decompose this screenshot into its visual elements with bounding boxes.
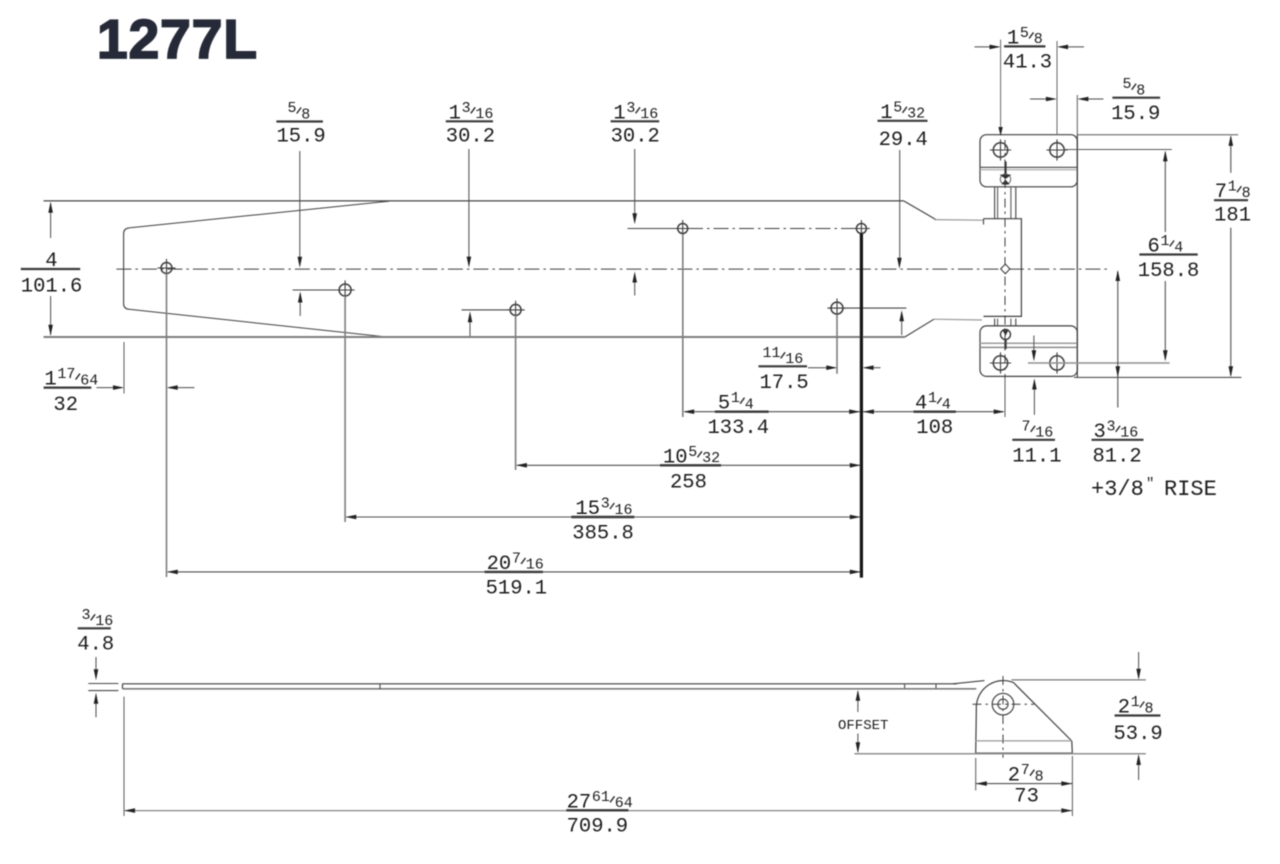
strap top edge / extension	[44, 200, 904, 202]
svg-text:1: 1	[928, 390, 937, 407]
svg-text:8: 8	[1242, 185, 1251, 202]
svg-text:5: 5	[1123, 76, 1132, 93]
svg-text:385.8: 385.8	[572, 523, 634, 546]
strap bottom taper edge	[129, 309, 385, 337]
bottom plate pin	[1001, 330, 1011, 350]
ext left end side	[123, 697, 125, 816]
bracket base top	[976, 740, 1072, 742]
dimension label 1 3/16 over 30.2	[446, 100, 495, 149]
svg-text:4: 4	[745, 397, 754, 414]
svg-text:1: 1	[613, 102, 625, 125]
dim 81.2mm vertical	[1117, 272, 1119, 408]
strap top taper edge	[129, 201, 389, 228]
svg-text:1: 1	[1161, 233, 1170, 250]
svg-text:6: 6	[1148, 236, 1160, 259]
ext line hole A down	[166, 274, 168, 578]
strap left end cap	[124, 228, 129, 309]
dim 15.9mm top right line	[1030, 98, 1055, 100]
ext line hole C down	[515, 316, 517, 471]
svg-text:3: 3	[462, 100, 471, 117]
svg-text:5: 5	[1020, 25, 1029, 42]
bracket right base edge	[1071, 741, 1074, 753]
ext base line	[854, 753, 1146, 755]
dim 181mm vertical	[1230, 137, 1232, 173]
svg-text:5: 5	[718, 393, 730, 416]
dimension label 2 1/8 over 53.9	[1114, 694, 1163, 746]
bracket hump and diagonal	[976, 681, 1071, 741]
hole F leader	[844, 307, 907, 309]
svg-text:5: 5	[688, 444, 697, 461]
dimension label 1 5/32 over 29.4	[878, 99, 928, 152]
side strap top bend	[953, 681, 985, 684]
dim 158.8mm vertical	[1164, 153, 1166, 233]
svg-text:16: 16	[526, 557, 544, 574]
svg-text:1277L: 1277L	[97, 8, 258, 70]
svg-text:8: 8	[1034, 31, 1043, 48]
pin axis centerline vertical	[1004, 140, 1006, 416]
svg-text:61: 61	[592, 789, 610, 806]
svg-text:4: 4	[1174, 239, 1183, 256]
bracket pin outer circle	[992, 693, 1014, 715]
bracket pin horizontal centerline	[973, 703, 1035, 705]
top plate screw hole right	[1050, 143, 1064, 157]
svg-text:17.5: 17.5	[760, 372, 809, 395]
svg-text:29.4: 29.4	[879, 129, 928, 152]
ext line plate bottom right	[1074, 376, 1241, 378]
dimension label 3 3/16 over 81.2	[1092, 418, 1144, 468]
ext bracket left side	[975, 758, 977, 791]
ext line screw col left up	[1000, 40, 1002, 129]
dim 73mm line	[976, 783, 1073, 785]
hole B leader	[293, 289, 340, 291]
dimension label 6 1/4 over 158.8	[1138, 233, 1200, 283]
ext line screw row right	[1064, 149, 1172, 151]
bracket pin inner circle	[998, 699, 1008, 709]
neck top edge	[934, 219, 984, 222]
svg-text:1: 1	[1228, 179, 1237, 196]
hinge knuckle lower	[995, 319, 1016, 326]
svg-text:16: 16	[475, 106, 493, 123]
ext line plate top right	[1077, 134, 1238, 136]
label4 leader	[899, 150, 901, 264]
dimension label second 1 3/16 over 30.2	[611, 100, 660, 149]
neck top slope	[904, 201, 936, 220]
strap hole F	[831, 302, 843, 314]
bottom plate screw hole left	[993, 356, 1007, 370]
svg-text:7: 7	[1021, 762, 1030, 779]
svg-text:1: 1	[1007, 27, 1019, 50]
side strap joint tick 2	[904, 684, 906, 688]
svg-text:108: 108	[916, 417, 953, 440]
strap hole D (upper row left)	[678, 224, 688, 234]
top plate fold line A	[980, 166, 1077, 168]
svg-text:53.9: 53.9	[1114, 723, 1163, 746]
dimension label 1 17/64 over 32	[44, 366, 99, 417]
center leaf right edge	[1020, 219, 1022, 317]
svg-text:3: 3	[626, 100, 635, 117]
svg-text:1: 1	[1131, 694, 1140, 711]
bottom plate fold line B	[980, 346, 1077, 348]
svg-text:1: 1	[731, 390, 740, 407]
thick datum line	[860, 234, 863, 578]
svg-text:20: 20	[487, 553, 512, 576]
side strap joint tick 3	[935, 684, 937, 688]
neck bottom edge	[934, 318, 982, 321]
ext line pin below plate	[1004, 378, 1006, 417]
svg-text:8: 8	[1145, 700, 1154, 717]
svg-text:11.1: 11.1	[1012, 445, 1061, 468]
dimension label 3/16 over 4.8	[77, 607, 114, 657]
dim 4.8mm thickness	[88, 683, 118, 685]
svg-text:30.2: 30.2	[611, 125, 660, 148]
dimension label 27 61/64 over 709.9	[566, 789, 632, 839]
svg-text:16: 16	[615, 502, 633, 519]
svg-text:1: 1	[880, 102, 892, 125]
strap hole A (left)	[161, 263, 172, 274]
bracket left edge	[975, 706, 978, 754]
main centerline	[116, 268, 1110, 270]
svg-text:5: 5	[893, 99, 902, 116]
top plate pin	[1000, 162, 1012, 185]
svg-text:3: 3	[1094, 421, 1106, 444]
hole C leader	[462, 309, 511, 311]
dim 133.4mm line	[685, 411, 861, 413]
svg-text:41.3: 41.3	[1003, 51, 1052, 74]
svg-text:RISE: RISE	[1164, 477, 1217, 502]
top plate screw hole left	[993, 143, 1007, 157]
strap bottom edge / extension	[44, 336, 905, 338]
svg-text:27: 27	[567, 791, 592, 814]
svg-text:2: 2	[1118, 697, 1130, 720]
svg-text:158.8: 158.8	[1138, 260, 1200, 283]
svg-text:17: 17	[57, 366, 75, 383]
svg-text:32: 32	[53, 394, 78, 417]
svg-text:519.1: 519.1	[486, 578, 548, 601]
side strap joint tick 1	[379, 684, 381, 689]
ext line hole F down	[836, 315, 838, 374]
bottom plate outline	[980, 326, 1077, 377]
dimension label 20 7/16 over 519.1	[485, 550, 548, 600]
dim 709.9mm line	[124, 810, 1072, 812]
dimension label 1 5/8 over 41.3	[1003, 25, 1052, 74]
dimension label 4 1/4 over 108	[914, 390, 956, 440]
dim 385.8mm line	[346, 516, 860, 518]
svg-text:1: 1	[449, 102, 461, 125]
ext line left end (x=124)	[123, 342, 125, 394]
svg-text:7: 7	[1022, 418, 1031, 435]
ext line hole D down	[682, 234, 684, 417]
center leaf bottom edge	[984, 315, 1023, 317]
label1 up arrow	[299, 294, 301, 317]
svg-text:709.9: 709.9	[567, 816, 629, 839]
hinge knuckle upper	[995, 187, 1016, 219]
center leaf left step	[983, 219, 985, 225]
ext line screw col right up	[1056, 41, 1058, 135]
label4 up arrow	[901, 313, 903, 336]
svg-text:101.6: 101.6	[21, 276, 83, 299]
svg-text:4.8: 4.8	[77, 634, 114, 657]
svg-text:7: 7	[1215, 181, 1227, 204]
dimension label 2 7/8 over 73	[1008, 762, 1044, 808]
svg-text:64: 64	[615, 795, 633, 812]
dimension label 7/16 over 11.1	[1012, 418, 1061, 468]
strap hole C	[510, 304, 521, 315]
svg-text:15.9: 15.9	[277, 126, 326, 149]
top plate outline	[980, 135, 1077, 187]
svg-text:3: 3	[82, 607, 91, 624]
ext apex line	[1012, 679, 1146, 681]
svg-text:4: 4	[45, 250, 57, 273]
svg-text:+3/8: +3/8	[1091, 477, 1144, 502]
bottom plate fold line A	[980, 342, 1077, 344]
dim 11.1mm vertical	[1033, 336, 1035, 360]
svg-text:16: 16	[785, 351, 803, 368]
svg-text:32: 32	[702, 450, 720, 467]
svg-text:81.2: 81.2	[1093, 445, 1142, 468]
neck bottom slope	[905, 319, 934, 337]
ext line hole B down	[344, 296, 346, 522]
svg-text:3: 3	[601, 496, 610, 513]
svg-text:15: 15	[575, 498, 600, 521]
dim 108mm line	[863, 411, 1004, 413]
svg-text:8: 8	[1035, 769, 1044, 786]
bracket pin vertical centerline	[1002, 676, 1004, 758]
svg-text:181: 181	[1214, 205, 1251, 228]
svg-text:5: 5	[288, 100, 297, 117]
dim 519.1mm line	[168, 571, 860, 573]
bottom plate screw hole right	[1050, 356, 1064, 370]
label1 leader	[299, 151, 301, 263]
dimension label 15 3/16 over 385.8	[571, 496, 634, 546]
svg-text:1: 1	[44, 369, 56, 392]
pivot diamond	[1001, 264, 1010, 273]
upper hole row solid segment	[628, 228, 677, 230]
ext line plate right edge up	[1076, 95, 1078, 135]
label2 leader	[468, 149, 470, 263]
dim 32mm line	[97, 387, 123, 389]
side strap bottom edge	[123, 688, 977, 690]
strap hole B	[339, 284, 351, 296]
svg-text:16: 16	[95, 613, 113, 630]
center leaf top edge	[984, 218, 1023, 220]
dimension label 11/16 over 17.5	[759, 345, 809, 395]
svg-text:73: 73	[1014, 786, 1039, 809]
svg-text:11: 11	[763, 345, 781, 362]
svg-text:7: 7	[512, 550, 521, 567]
svg-text:258: 258	[670, 471, 707, 494]
top plate fold line B	[980, 169, 1077, 171]
ext bracket right side	[1071, 756, 1073, 816]
dim 17.5mm line	[808, 367, 835, 369]
label2 up arrow	[469, 314, 471, 337]
svg-text:3: 3	[1107, 418, 1116, 435]
svg-text:32: 32	[907, 106, 925, 123]
svg-text:8: 8	[1136, 83, 1145, 100]
svg-text:4: 4	[942, 397, 951, 414]
plates right edge line	[1076, 135, 1078, 378]
svg-text:16: 16	[1035, 425, 1053, 442]
dimension label 5/8 over 15.9	[276, 100, 325, 149]
dimension label 5/8 over 15.9 top right	[1111, 76, 1160, 126]
dim OFFSET vertical	[857, 692, 859, 713]
side strap left cap	[122, 684, 124, 689]
side strap top edge	[123, 683, 958, 685]
svg-text:16: 16	[640, 106, 658, 123]
ext line bottom screw row right	[1028, 362, 1170, 364]
dimension label 4 over 101.6	[21, 250, 83, 299]
svg-text:64: 64	[80, 372, 98, 389]
svg-text:2: 2	[1008, 765, 1020, 788]
dim 4in vertical	[50, 203, 52, 238]
strap hole E (upper row right)	[856, 224, 866, 234]
dim 41.3mm line	[975, 46, 1000, 48]
svg-text:133.4: 133.4	[708, 417, 770, 440]
label3 up arrow	[634, 275, 636, 296]
bracket base bottom	[976, 752, 1073, 754]
dim 258mm line	[517, 464, 860, 466]
svg-text:16: 16	[1120, 425, 1138, 442]
svg-text:8: 8	[301, 106, 310, 123]
svg-text:30.2: 30.2	[446, 125, 495, 148]
dim 53.9mm vertical	[1138, 652, 1140, 678]
dimension label 5 1/4 over 133.4	[708, 390, 770, 440]
svg-text:15.9: 15.9	[1111, 103, 1160, 126]
svg-text:″: ″	[1146, 476, 1154, 492]
svg-text:4: 4	[915, 393, 927, 416]
label3 leader	[634, 149, 636, 220]
dimension label 10 5/32 over 258	[660, 444, 721, 495]
upper hole row centerline	[688, 228, 855, 230]
dimension label 7 1/8 over 181	[1214, 179, 1251, 228]
svg-text:OFFSET: OFFSET	[838, 718, 888, 734]
svg-text:10: 10	[663, 446, 688, 469]
